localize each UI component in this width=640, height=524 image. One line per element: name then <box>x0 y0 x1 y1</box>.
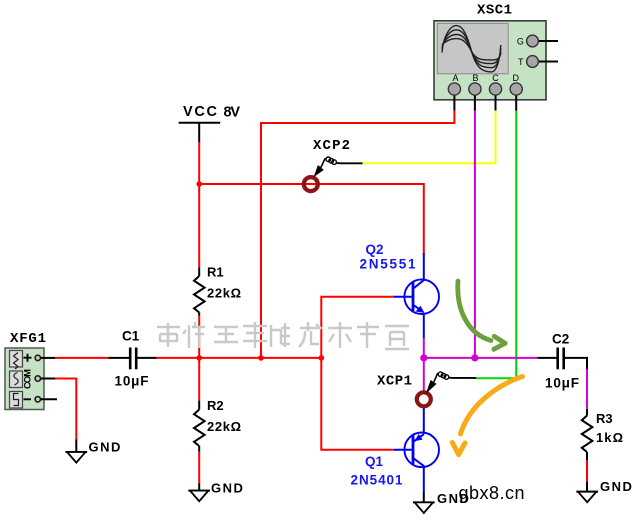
wire: red segment R2 top from main line <box>198 358 200 401</box>
svg-text:XCP2: XCP2 <box>313 138 350 154</box>
power: VCC 8V supply symbol <box>179 104 241 142</box>
node: magenta junction dot channel-B tap <box>471 354 478 361</box>
wire: red segment R3 bottom to ground <box>586 460 588 482</box>
node: magenta junction dot at output node <box>420 354 427 361</box>
wire: main input line red from XFG+ to C1 <box>55 357 109 359</box>
svg-text:22kΩ: 22kΩ <box>207 286 241 301</box>
svg-text:XFG1: XFG1 <box>10 331 46 347</box>
svg-text:C1: C1 <box>122 329 140 344</box>
ground: GND below XFG1 COM <box>66 440 122 463</box>
svg-text:C2: C2 <box>552 332 569 347</box>
wire: red segment XFG COM to ground <box>55 379 76 440</box>
svg-text:GND: GND <box>211 481 244 496</box>
capacitor C1 10uF <box>109 329 157 389</box>
svg-text:B: B <box>473 73 479 83</box>
svg-text:D: D <box>513 73 520 83</box>
svg-text:GND: GND <box>89 440 122 455</box>
wire: red segment R1 bottom to main input line <box>198 316 200 358</box>
svg-text:10μF: 10μF <box>545 376 579 391</box>
transistor Q1 2N5401 PNP <box>351 408 440 492</box>
resistor R3 1kOhm <box>582 409 623 460</box>
svg-text:22kΩ: 22kΩ <box>207 419 241 434</box>
wire: yellow wire scope C to XCP2 flag <box>363 111 496 164</box>
svg-text:Q1: Q1 <box>365 454 384 469</box>
svg-text:XSC1: XSC1 <box>477 3 512 19</box>
node: junction dot VCC rail (199,184) <box>196 181 202 187</box>
svg-text:C: C <box>492 73 499 83</box>
ground: GND below R3 <box>576 479 633 502</box>
svg-text:GND: GND <box>600 479 633 494</box>
svg-text:gbx8.cn: gbx8.cn <box>459 483 525 503</box>
watermark: gray Chinese text "硬件工程师技术干货" (drawn as stroke glyphs) <box>157 322 409 349</box>
oscilloscope XSC1 <box>434 3 558 111</box>
ground: GND below R2 <box>188 481 244 502</box>
resistor R1 22kOhm <box>194 265 241 316</box>
svg-text:XCP1: XCP1 <box>377 374 412 390</box>
probe XCP1 current probe <box>377 372 476 406</box>
svg-text:10μF: 10μF <box>115 374 149 389</box>
ground: GND below Q1 <box>413 491 470 513</box>
node: junction dot base node on main line <box>319 355 325 361</box>
capacitor C2 10uF <box>538 332 588 391</box>
resistor R2 22kOhm <box>194 398 241 451</box>
function generator XFG1 <box>5 331 57 410</box>
svg-text:VCC: VCC <box>183 104 218 120</box>
wire: magenta wire scope B down to output node <box>474 111 476 358</box>
svg-text:2N5401: 2N5401 <box>351 473 403 488</box>
wire: magenta output node wires <box>424 338 538 392</box>
svg-text:A: A <box>453 73 459 83</box>
svg-text:Q2: Q2 <box>366 242 384 257</box>
wire: main input line red from C1 to base node <box>157 357 322 359</box>
wire: red horizontal VCC rail y=184 to Q2 collector branch <box>199 184 424 255</box>
wire: red segment R2 bottom to ground <box>198 451 200 483</box>
annotation: gbx8.cn watermark text <box>459 483 525 503</box>
svg-text:R3: R3 <box>596 411 613 426</box>
wire: magenta segment C2 right corner down to R3 <box>586 369 588 409</box>
wire: red channel-A wire from scope A down and across to input node <box>261 111 454 358</box>
annotation: green curved arrow <box>458 281 505 349</box>
wire: green wire scope D down to XCP1 flag <box>476 111 516 379</box>
node: junction dot channel-A tap on main line <box>258 355 264 361</box>
svg-text:R2: R2 <box>207 398 224 413</box>
svg-text:T: T <box>518 57 524 67</box>
svg-text:COM: COM <box>23 369 34 389</box>
node: junction dot at R1/R2 divider on main line <box>196 355 202 361</box>
svg-text:2N5551: 2N5551 <box>360 256 416 271</box>
wire: red net VCC rail vertical from VCC to R1 and junction <box>198 142 200 267</box>
svg-text:1kΩ: 1kΩ <box>596 430 623 445</box>
annotation: orange curved arrow <box>452 377 522 455</box>
transistor Q2 2N5551 NPN <box>360 242 440 338</box>
svg-text:G: G <box>517 37 524 47</box>
svg-text:R1: R1 <box>207 265 224 280</box>
wire: red base bus vertical connecting Q2 and Q1 bases <box>321 297 394 450</box>
probe XCP2 current probe <box>304 138 363 191</box>
svg-text:8V: 8V <box>224 105 241 121</box>
